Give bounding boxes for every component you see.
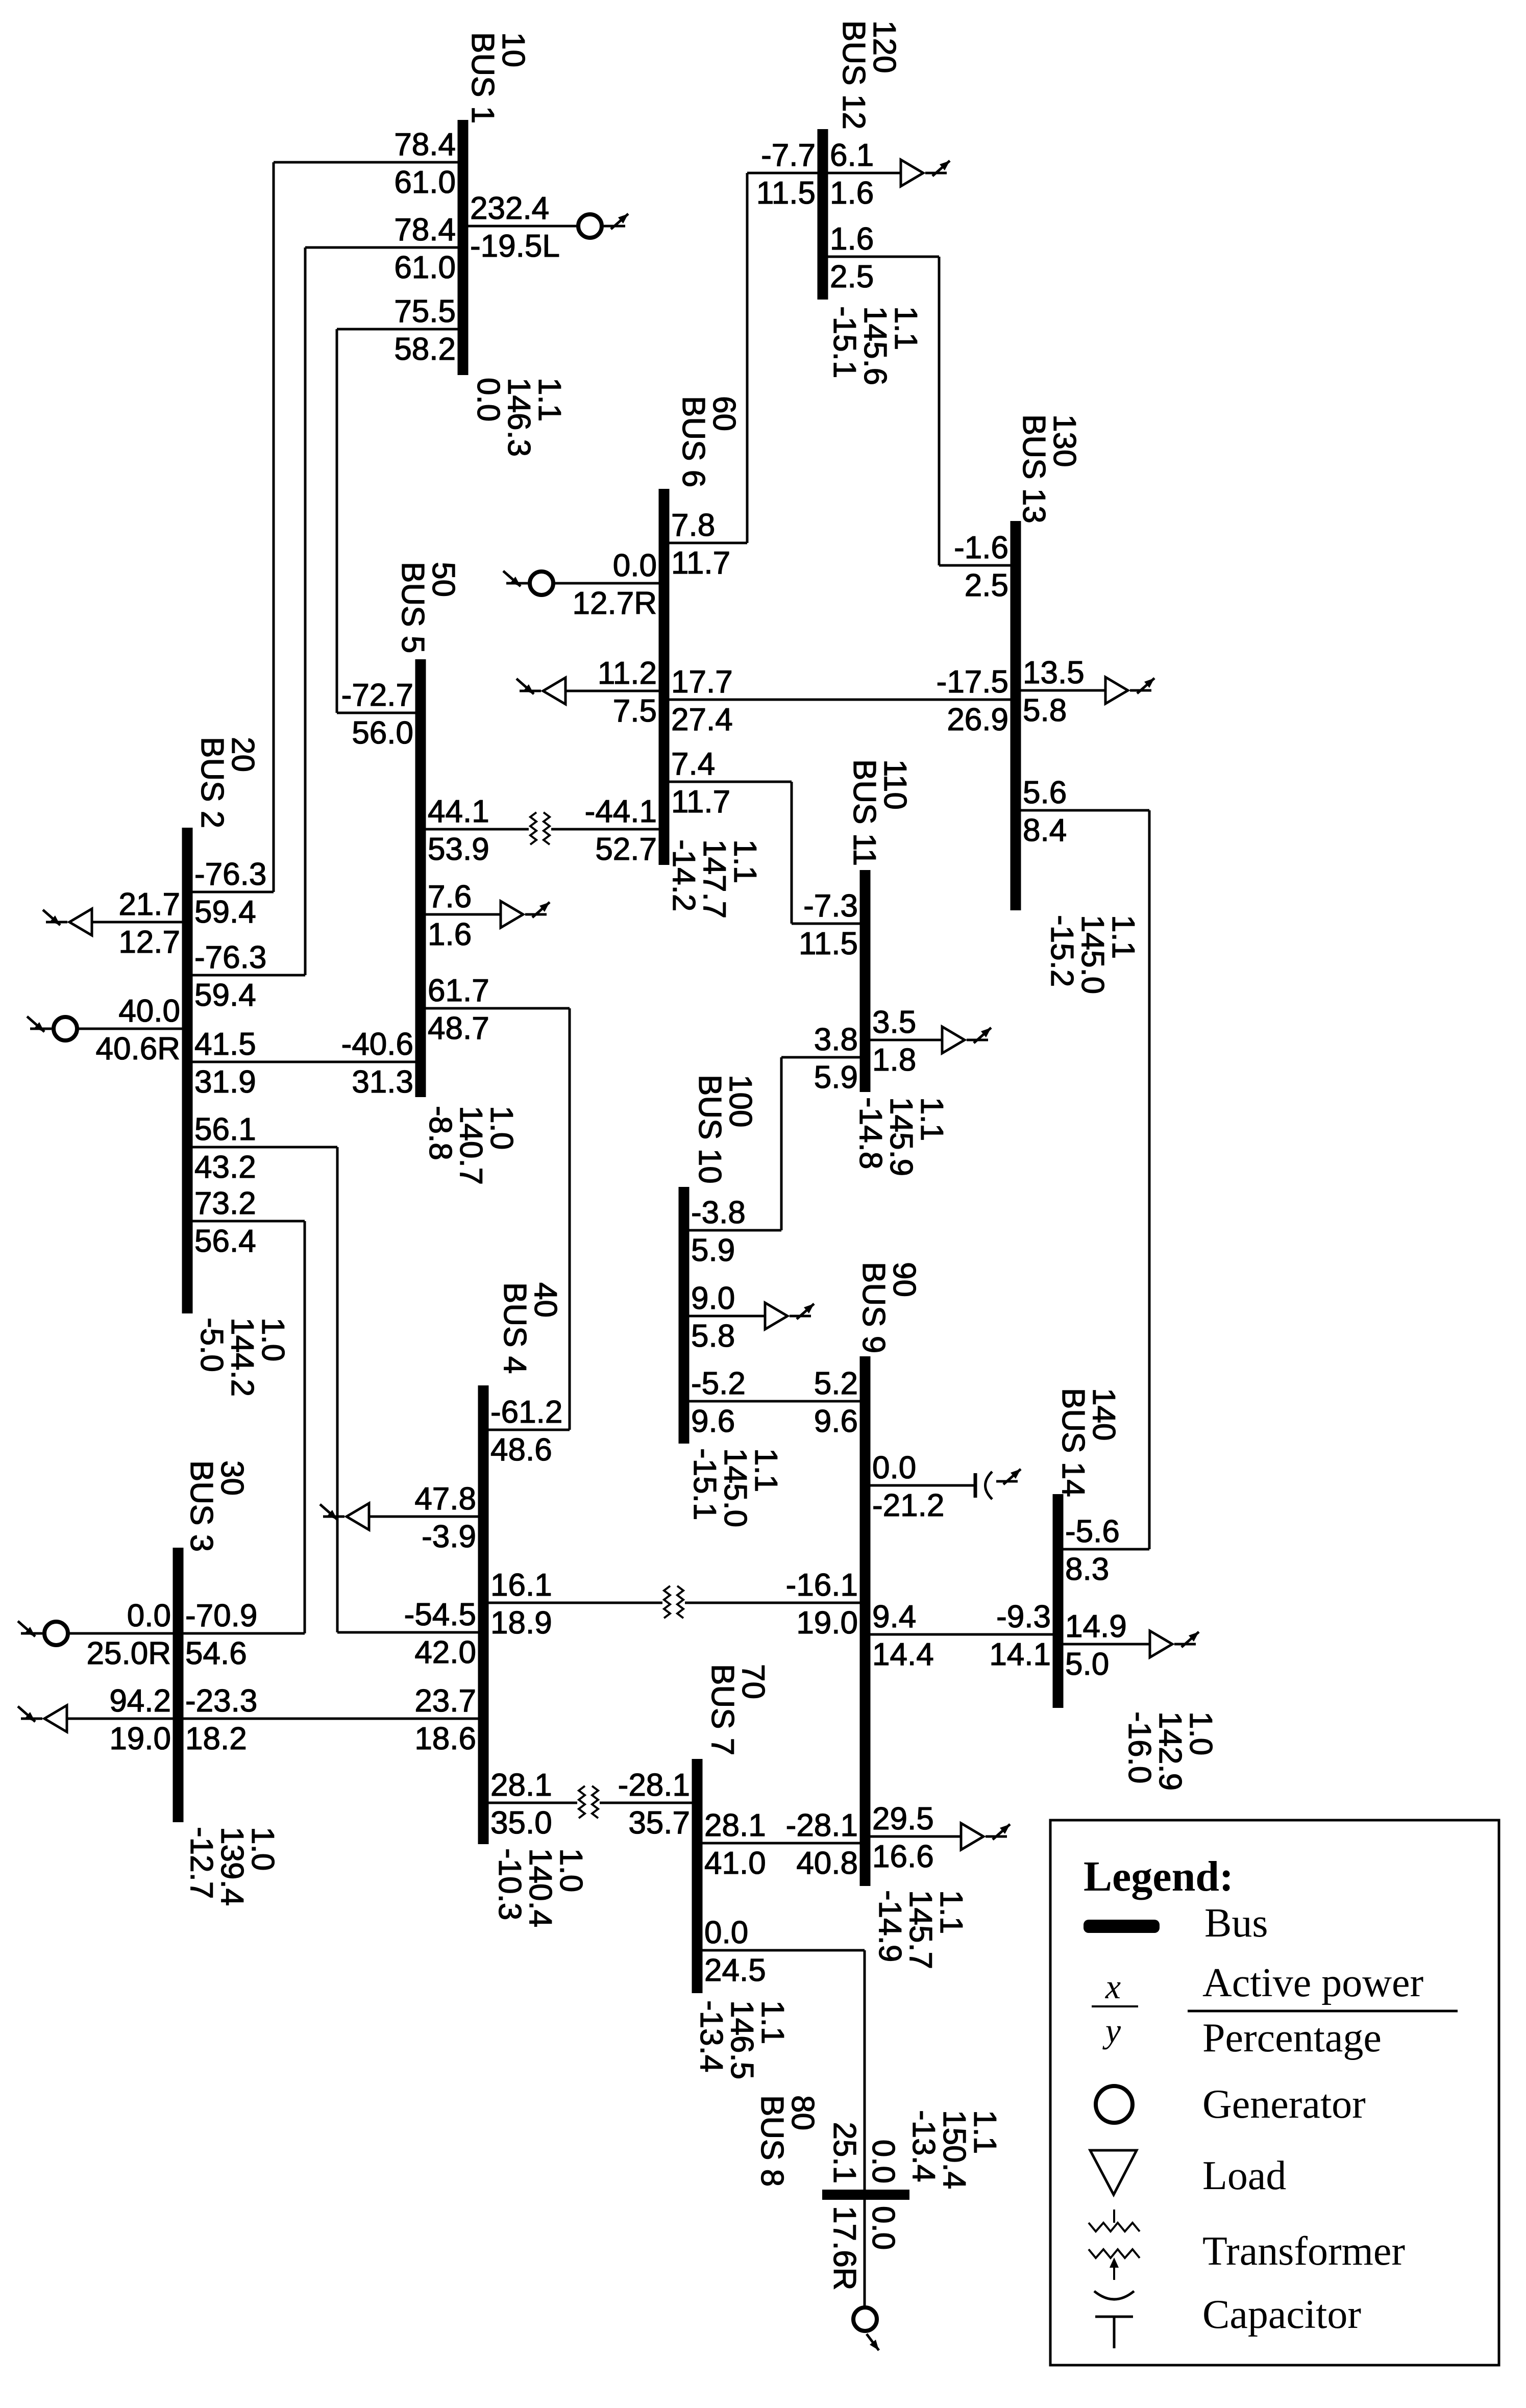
wire branch 7-8 horizontal at BUS 7 bbox=[697, 1949, 865, 1952]
svg-text:1.8: 1.8 bbox=[872, 1042, 916, 1078]
wire branch 1-2b vertical bbox=[304, 247, 307, 975]
svg-text:40.8: 40.8 bbox=[796, 1846, 858, 1881]
legend fraction rule bbox=[1188, 2010, 1458, 2013]
svg-text:27.4: 27.4 bbox=[671, 702, 733, 737]
wire branch 1-5 horizontal at BUS 5 bbox=[337, 712, 421, 714]
svg-text:-54.5: -54.5 bbox=[404, 1597, 476, 1632]
svg-text:1.6: 1.6 bbox=[428, 917, 472, 952]
svg-text:2.5: 2.5 bbox=[830, 259, 874, 294]
legend box bbox=[1050, 1820, 1499, 2365]
svg-text:16.1: 16.1 bbox=[490, 1568, 552, 1603]
wire load lead BUS 13 bbox=[1016, 689, 1105, 692]
transformer T5-6 bbox=[530, 812, 536, 845]
bus BUS 1 bbox=[458, 120, 469, 375]
svg-text:-16.1: -16.1 bbox=[786, 1568, 858, 1603]
svg-text:47.8: 47.8 bbox=[414, 1481, 476, 1517]
svg-text:48.6: 48.6 bbox=[490, 1432, 552, 1468]
wire branch 7-8 vertical through BUS 8 bbox=[864, 1950, 866, 2308]
svg-text:58.2: 58.2 bbox=[394, 332, 456, 367]
legend bus symbol bbox=[1084, 1920, 1160, 1933]
svg-text:1.6: 1.6 bbox=[830, 176, 874, 211]
load L9 bbox=[961, 1823, 983, 1850]
svg-text:7.6: 7.6 bbox=[428, 879, 472, 914]
svg-text:18.9: 18.9 bbox=[490, 1605, 552, 1641]
wire branch 1-5 vertical bbox=[336, 329, 338, 713]
svg-text:-44.1: -44.1 bbox=[585, 794, 657, 829]
wire branch 13-14 horizontal at BUS 14 bbox=[1058, 1548, 1149, 1551]
svg-text:18.2: 18.2 bbox=[185, 1721, 247, 1756]
wire generator lead and branch 2-3 at BUS 3 bbox=[67, 1632, 305, 1635]
svg-text:28.1: 28.1 bbox=[490, 1768, 552, 1803]
wire branch 2-3 vertical bbox=[304, 1221, 306, 1633]
wire branch 6-12 horizontal at BUS 6 bbox=[664, 542, 747, 544]
wire branch 1-2a horizontal at BUS 1 bbox=[274, 161, 463, 164]
svg-text:41.0: 41.0 bbox=[704, 1846, 766, 1881]
svg-text:8.3: 8.3 bbox=[1065, 1552, 1109, 1587]
svg-text:16.6: 16.6 bbox=[872, 1839, 934, 1874]
wire branch 1-2a horizontal at BUS 2 bbox=[187, 891, 274, 893]
svg-text:23.7: 23.7 bbox=[414, 1683, 476, 1719]
svg-text:11.5: 11.5 bbox=[799, 926, 858, 961]
svg-text:-3.8: -3.8 bbox=[691, 1195, 746, 1230]
wire branch 11-10 vertical bbox=[780, 1057, 783, 1230]
svg-text:40.0: 40.0 bbox=[118, 994, 180, 1029]
svg-text:0.0: 0.0 bbox=[866, 2206, 901, 2250]
wire branch 6-12 vertical bbox=[746, 173, 749, 543]
svg-text:Load: Load bbox=[1202, 2153, 1286, 2198]
wire branch 2-4 horizontal at BUS 4 bbox=[337, 1631, 483, 1634]
load L2 bbox=[69, 909, 92, 935]
transformer T4-7 bbox=[579, 1786, 585, 1818]
svg-text:25.0R: 25.0R bbox=[87, 1636, 171, 1671]
svg-text:0.0: 0.0 bbox=[127, 1598, 171, 1633]
wire generator lead BUS 6 bbox=[552, 582, 664, 585]
svg-text:12.7R: 12.7R bbox=[573, 586, 657, 621]
svg-text:0.0: 0.0 bbox=[704, 1915, 748, 1950]
svg-text:-7.3: -7.3 bbox=[803, 888, 858, 924]
wire branch 1-2b horizontal at BUS 2 bbox=[187, 974, 305, 977]
svg-text:Bus: Bus bbox=[1204, 1901, 1268, 1946]
wire branch 5-4 vertical bbox=[569, 1008, 571, 1430]
wire branch 5-6 left segment bbox=[421, 828, 529, 831]
bus BUS 2 bbox=[182, 828, 193, 1313]
svg-text:25.1: 25.1 bbox=[827, 2122, 862, 2183]
wire branch 4-9 left segment bbox=[483, 1602, 662, 1604]
wire load lead BUS 14 bbox=[1058, 1643, 1150, 1646]
svg-text:x: x bbox=[1105, 1967, 1121, 2006]
bus BUS 10 bbox=[679, 1187, 690, 1444]
svg-text:Generator: Generator bbox=[1202, 2082, 1366, 2127]
wire branch 1-5 horizontal at BUS 1 bbox=[337, 328, 463, 331]
svg-text:40.6R: 40.6R bbox=[96, 1031, 180, 1066]
wire load lead BUS 11 bbox=[865, 1039, 942, 1041]
svg-text:31.9: 31.9 bbox=[194, 1064, 256, 1100]
wire branch 5-6 right segment bbox=[551, 828, 664, 831]
svg-text:8.4: 8.4 bbox=[1023, 813, 1067, 848]
svg-text:-72.7: -72.7 bbox=[341, 678, 413, 713]
svg-text:56.0: 56.0 bbox=[352, 715, 413, 751]
capacitor C9 curved plate bbox=[986, 1472, 993, 1499]
svg-text:31.3: 31.3 bbox=[352, 1064, 413, 1100]
svg-text:-7.7: -7.7 bbox=[761, 138, 816, 173]
svg-text:41.5: 41.5 bbox=[194, 1027, 256, 1062]
svg-text:14.9: 14.9 bbox=[1065, 1609, 1127, 1644]
svg-text:17.7: 17.7 bbox=[671, 664, 733, 700]
transformer T4-9 bbox=[664, 1586, 670, 1618]
svg-text:11.7: 11.7 bbox=[671, 545, 730, 581]
bus BUS 11 bbox=[860, 870, 871, 1092]
wire branch 12-13 horizontal at BUS 12 bbox=[823, 256, 939, 258]
svg-text:5.8: 5.8 bbox=[691, 1319, 735, 1354]
svg-text:5.9: 5.9 bbox=[814, 1060, 858, 1095]
svg-text:35.7: 35.7 bbox=[628, 1805, 690, 1841]
wire branch 12-13 horizontal at BUS 13 bbox=[939, 564, 1016, 567]
svg-text:61.0: 61.0 bbox=[394, 250, 456, 285]
svg-text:-76.3: -76.3 bbox=[194, 857, 266, 892]
wire branch 6-11 horizontal at BUS 11 bbox=[792, 923, 865, 925]
wire capacitor lead BUS 9 bbox=[865, 1484, 974, 1487]
svg-text:-61.2: -61.2 bbox=[490, 1395, 562, 1430]
svg-text:-28.1: -28.1 bbox=[786, 1808, 858, 1843]
bus BUS 4 bbox=[478, 1385, 489, 1844]
svg-text:14.4: 14.4 bbox=[872, 1637, 934, 1672]
svg-text:232.4: 232.4 bbox=[470, 191, 549, 226]
svg-text:24.5: 24.5 bbox=[704, 1953, 766, 1988]
svg-text:9.4: 9.4 bbox=[872, 1599, 916, 1634]
svg-text:43.2: 43.2 bbox=[194, 1150, 256, 1185]
svg-text:5.6: 5.6 bbox=[1023, 775, 1067, 810]
svg-text:-70.9: -70.9 bbox=[185, 1598, 257, 1633]
svg-text:Legend:: Legend: bbox=[1084, 1853, 1234, 1900]
svg-text:61.0: 61.0 bbox=[394, 165, 456, 200]
svg-text:28.1: 28.1 bbox=[704, 1808, 766, 1843]
svg-text:-76.3: -76.3 bbox=[194, 940, 266, 975]
bus BUS 13 bbox=[1011, 521, 1021, 910]
load L10 bbox=[765, 1303, 787, 1329]
svg-text:19.0: 19.0 bbox=[109, 1721, 171, 1756]
wire branch 6-11 horizontal at BUS 6 bbox=[664, 781, 792, 783]
svg-text:13.5: 13.5 bbox=[1023, 655, 1085, 690]
wire branch 13-14 horizontal at BUS 13 bbox=[1016, 809, 1149, 812]
svg-text:9.6: 9.6 bbox=[691, 1404, 735, 1439]
svg-text:53.9: 53.9 bbox=[428, 832, 489, 867]
wire branch 3-4 and load lead BUS 3 bbox=[66, 1718, 483, 1720]
legend transformer symbol bbox=[1113, 2210, 1115, 2223]
wire branch 2-3 horizontal at BUS 2 bbox=[187, 1220, 305, 1223]
svg-text:21.7: 21.7 bbox=[118, 887, 180, 922]
svg-text:5.9: 5.9 bbox=[691, 1233, 735, 1268]
bus BUS 3 bbox=[173, 1548, 184, 1822]
svg-text:94.2: 94.2 bbox=[109, 1683, 171, 1719]
load L12 bbox=[901, 160, 923, 186]
generator G3 bbox=[44, 1622, 68, 1645]
svg-text:75.5: 75.5 bbox=[394, 294, 456, 329]
svg-text:Transformer: Transformer bbox=[1202, 2229, 1405, 2274]
svg-text:-40.6: -40.6 bbox=[341, 1027, 413, 1062]
svg-text:73.2: 73.2 bbox=[194, 1186, 256, 1221]
wire branch 5-4 horizontal at BUS 4 bbox=[483, 1429, 570, 1431]
svg-text:61.7: 61.7 bbox=[428, 973, 489, 1008]
svg-text:6.1: 6.1 bbox=[830, 138, 874, 173]
svg-text:78.4: 78.4 bbox=[394, 212, 456, 247]
svg-text:12.7: 12.7 bbox=[118, 925, 180, 960]
svg-text:5.0: 5.0 bbox=[1065, 1647, 1109, 1682]
legend capacitor symbol bbox=[1094, 2291, 1134, 2299]
svg-text:7.8: 7.8 bbox=[671, 508, 715, 543]
wire branch 9-14 bbox=[865, 1633, 1058, 1636]
wire load lead BUS 6 bbox=[565, 690, 664, 692]
wire load lead BUS 2 bbox=[92, 921, 187, 924]
wire branch 6-11 vertical bbox=[791, 782, 793, 924]
svg-text:11.2: 11.2 bbox=[598, 656, 657, 691]
svg-text:Active power: Active power bbox=[1202, 1960, 1423, 2005]
wire branch 7-9 bbox=[697, 1842, 865, 1845]
svg-text:26.9: 26.9 bbox=[947, 702, 1008, 737]
bus BUS 6 bbox=[659, 489, 670, 865]
svg-text:0.0: 0.0 bbox=[613, 548, 657, 583]
svg-text:59.4: 59.4 bbox=[194, 895, 256, 930]
svg-text:y: y bbox=[1102, 2011, 1121, 2050]
capacitor C9 arrow glyph bbox=[1003, 1469, 1021, 1484]
svg-text:7.4: 7.4 bbox=[671, 747, 715, 782]
svg-text:Percentage: Percentage bbox=[1202, 2016, 1382, 2061]
generator G6 bbox=[530, 572, 553, 595]
wire load lead BUS 4 bbox=[369, 1516, 483, 1518]
svg-text:44.1: 44.1 bbox=[428, 794, 489, 829]
svg-text:9.6: 9.6 bbox=[814, 1404, 858, 1439]
svg-text:-21.2: -21.2 bbox=[872, 1488, 944, 1523]
wire branch 4-7 right segment bbox=[600, 1802, 697, 1804]
bus BUS 8 (horizontal) bbox=[822, 2190, 909, 2200]
load L4 bbox=[347, 1503, 369, 1530]
bus BUS 9 bbox=[860, 1356, 871, 1886]
svg-text:11.5: 11.5 bbox=[756, 176, 816, 211]
svg-text:5.8: 5.8 bbox=[1023, 693, 1067, 728]
svg-text:35.0: 35.0 bbox=[490, 1805, 552, 1841]
wire branch 2-4 vertical bbox=[336, 1147, 339, 1632]
svg-text:2.5: 2.5 bbox=[965, 568, 1008, 603]
wire branch 1-2a vertical bbox=[273, 162, 275, 892]
svg-text:11.7: 11.7 bbox=[671, 784, 730, 820]
svg-text:14.1: 14.1 bbox=[989, 1637, 1051, 1672]
svg-text:-19.5L: -19.5L bbox=[470, 229, 560, 264]
svg-text:5.2: 5.2 bbox=[814, 1366, 858, 1401]
wire branch 2-5 bbox=[187, 1061, 421, 1063]
svg-text:42.0: 42.0 bbox=[414, 1635, 476, 1670]
svg-text:48.7: 48.7 bbox=[428, 1011, 489, 1046]
wire branch 10-9 bbox=[684, 1400, 865, 1403]
svg-text:52.7: 52.7 bbox=[595, 832, 657, 867]
svg-text:-1.6: -1.6 bbox=[954, 530, 1008, 565]
wire generator lead BUS 1 bbox=[463, 225, 579, 228]
legend generator symbol bbox=[1096, 2086, 1133, 2123]
load L13 bbox=[1105, 677, 1128, 704]
svg-text:-3.9: -3.9 bbox=[422, 1519, 476, 1554]
load L11 bbox=[942, 1027, 965, 1053]
bus BUS 7 bbox=[692, 1759, 703, 1993]
svg-text:56.4: 56.4 bbox=[194, 1224, 256, 1259]
wire branch 2-4 horizontal at BUS 2 bbox=[187, 1146, 337, 1149]
load L6 bbox=[543, 678, 565, 704]
svg-text:-9.3: -9.3 bbox=[996, 1599, 1051, 1634]
svg-text:56.1: 56.1 bbox=[194, 1112, 256, 1147]
svg-text:78.4: 78.4 bbox=[394, 127, 456, 162]
svg-text:-17.5: -17.5 bbox=[937, 664, 1008, 700]
generator G8 bbox=[853, 2307, 877, 2331]
wire load lead BUS 5 bbox=[421, 913, 501, 916]
wire generator lead BUS 2 bbox=[76, 1028, 187, 1030]
legend load symbol bbox=[1090, 2150, 1137, 2195]
svg-text:59.4: 59.4 bbox=[194, 978, 256, 1013]
wire branch 4-9 right segment bbox=[685, 1602, 865, 1604]
wire load lead BUS 10 bbox=[684, 1315, 765, 1318]
load L14 bbox=[1150, 1631, 1172, 1657]
svg-text:-5.6: -5.6 bbox=[1065, 1514, 1120, 1549]
generator G1 bbox=[578, 214, 602, 238]
wire load lead BUS 9 bbox=[865, 1835, 961, 1838]
svg-text:9.0: 9.0 bbox=[691, 1281, 735, 1316]
svg-text:3.8: 3.8 bbox=[814, 1022, 858, 1057]
wire branch 4-7 left segment bbox=[483, 1802, 577, 1804]
generator G2 bbox=[54, 1017, 77, 1040]
svg-text:-23.3: -23.3 bbox=[185, 1683, 257, 1719]
svg-text:Capacitor: Capacitor bbox=[1202, 2292, 1361, 2337]
svg-text:3.5: 3.5 bbox=[872, 1005, 916, 1040]
capacitor C9 flat plate bbox=[974, 1473, 977, 1498]
wire branch 11-10 horizontal at BUS 11 bbox=[781, 1056, 865, 1059]
bus BUS 14 bbox=[1053, 1494, 1064, 1708]
svg-text:29.5: 29.5 bbox=[872, 1801, 934, 1836]
svg-text:17.6R: 17.6R bbox=[827, 2206, 862, 2290]
svg-text:-28.1: -28.1 bbox=[618, 1768, 690, 1803]
wire branch 13-14 vertical bbox=[1148, 810, 1151, 1549]
svg-text:19.0: 19.0 bbox=[796, 1605, 858, 1641]
wire branch 11-10 horizontal at BUS 10 bbox=[684, 1229, 781, 1232]
svg-text:-5.2: -5.2 bbox=[691, 1366, 746, 1401]
wire branch 6-13 bbox=[664, 699, 1016, 701]
load L3 bbox=[44, 1705, 67, 1732]
wire branch 12-13 vertical bbox=[938, 257, 941, 565]
wire branch 6-12 horizontal through BUS 12 and load lead bbox=[747, 172, 901, 175]
svg-text:7.5: 7.5 bbox=[613, 693, 657, 729]
svg-text:0.0: 0.0 bbox=[866, 2140, 901, 2183]
bus BUS 5 bbox=[415, 659, 426, 1097]
wire branch 5-4 horizontal at BUS 5 bbox=[421, 1007, 570, 1010]
svg-text:54.6: 54.6 bbox=[185, 1636, 247, 1671]
wire branch 1-2b horizontal at BUS 1 bbox=[305, 246, 463, 249]
svg-text:1.6: 1.6 bbox=[830, 221, 874, 257]
svg-text:0.0: 0.0 bbox=[872, 1450, 916, 1485]
svg-text:18.6: 18.6 bbox=[414, 1721, 476, 1756]
load L5 bbox=[501, 901, 523, 928]
bus BUS 12 bbox=[818, 129, 828, 300]
